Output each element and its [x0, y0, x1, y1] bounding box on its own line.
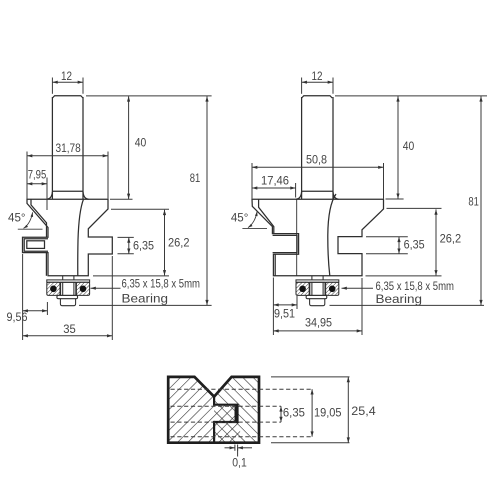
svg-text:26,2: 26,2 — [440, 231, 462, 245]
svg-text:35: 35 — [63, 322, 76, 336]
svg-text:12: 12 — [61, 69, 72, 83]
svg-text:31,78: 31,78 — [56, 141, 81, 155]
svg-text:6,35 x 15,8 x 5mm: 6,35 x 15,8 x 5mm — [122, 277, 201, 291]
svg-text:6,35: 6,35 — [283, 406, 305, 420]
svg-text:19,05: 19,05 — [314, 406, 342, 420]
svg-text:40: 40 — [135, 136, 147, 150]
svg-text:7,95: 7,95 — [28, 168, 47, 182]
svg-text:50,8: 50,8 — [306, 152, 327, 166]
svg-text:0,1: 0,1 — [232, 455, 247, 469]
svg-text:81: 81 — [468, 194, 479, 208]
svg-text:34,95: 34,95 — [305, 316, 332, 330]
svg-text:26,2: 26,2 — [168, 236, 190, 250]
svg-text:40: 40 — [403, 139, 415, 153]
svg-text:12: 12 — [312, 69, 323, 83]
svg-text:45°: 45° — [8, 210, 26, 224]
svg-text:6,35: 6,35 — [404, 237, 425, 251]
svg-text:45°: 45° — [231, 210, 249, 224]
svg-text:Bearing: Bearing — [122, 291, 169, 305]
svg-text:9,51: 9,51 — [274, 306, 295, 320]
svg-text:25,4: 25,4 — [351, 404, 376, 418]
svg-text:81: 81 — [190, 171, 201, 185]
svg-text:6,35: 6,35 — [133, 238, 154, 252]
svg-text:9,56: 9,56 — [7, 310, 28, 324]
svg-text:17,46: 17,46 — [261, 173, 289, 187]
svg-text:Bearing: Bearing — [376, 292, 423, 306]
